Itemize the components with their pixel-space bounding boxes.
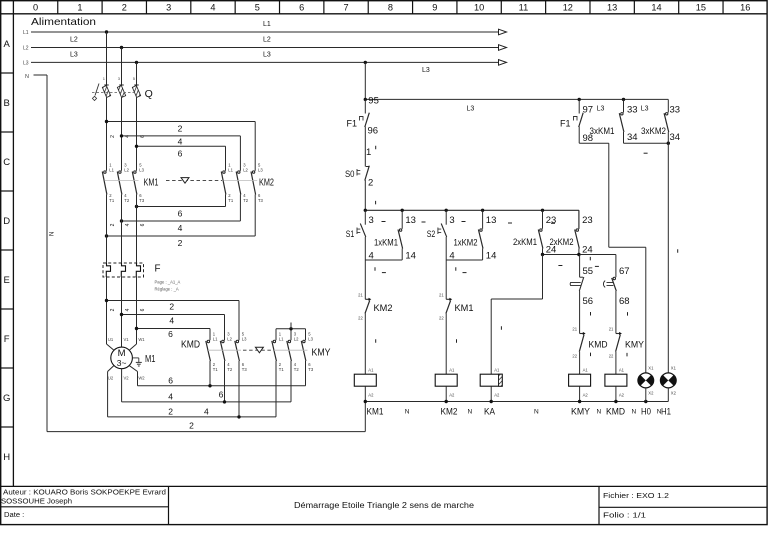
svg-text:A2: A2 (583, 393, 589, 398)
svg-text:S0: S0 (345, 169, 355, 180)
svg-text:KMD: KMD (606, 407, 625, 418)
svg-text:4: 4 (210, 2, 215, 12)
svg-text:H0: H0 (641, 407, 651, 418)
svg-text:KM2: KM2 (374, 303, 393, 314)
svg-text:L3: L3 (641, 106, 649, 113)
svg-text:T2: T2 (243, 198, 249, 203)
svg-text:8: 8 (388, 2, 393, 12)
svg-text:Page : _A1_A: Page : _A1_A (155, 280, 181, 285)
svg-text:H: H (3, 452, 10, 463)
svg-text:L1: L1 (228, 167, 233, 172)
svg-text:6: 6 (219, 390, 224, 400)
svg-text:2xKM2: 2xKM2 (550, 237, 574, 248)
svg-text:6: 6 (168, 329, 173, 339)
svg-text:21: 21 (358, 292, 363, 297)
svg-text:KMY: KMY (571, 407, 591, 418)
svg-text:Date :: Date : (4, 510, 24, 519)
svg-text:W2: W2 (138, 376, 145, 381)
svg-text:F1: F1 (560, 118, 571, 129)
svg-text:T2: T2 (124, 198, 130, 203)
svg-text:23: 23 (582, 215, 593, 226)
svg-text:13: 13 (486, 215, 497, 226)
svg-text:F1: F1 (347, 118, 358, 129)
svg-text:Alimentation: Alimentation (31, 17, 96, 28)
svg-text:L1: L1 (213, 337, 218, 342)
svg-text:L3: L3 (258, 167, 263, 172)
svg-text:L2: L2 (70, 37, 78, 44)
svg-text:56: 56 (583, 296, 594, 307)
svg-text:2: 2 (178, 124, 183, 134)
svg-text:A1: A1 (368, 368, 374, 373)
svg-text:L3: L3 (23, 60, 29, 66)
svg-text:L2: L2 (227, 337, 232, 342)
svg-text:6: 6 (178, 209, 183, 219)
svg-text:14: 14 (405, 251, 416, 262)
svg-text:X1: X1 (648, 366, 654, 371)
svg-text:N: N (25, 74, 29, 80)
svg-text:4: 4 (168, 391, 173, 401)
svg-text:3: 3 (449, 215, 454, 226)
svg-text:6: 6 (140, 223, 146, 226)
svg-text:S1: S1 (346, 229, 355, 240)
svg-text:T3: T3 (258, 198, 264, 203)
svg-text:KM1: KM1 (367, 407, 384, 418)
svg-text:6: 6 (299, 2, 304, 12)
svg-text:C: C (3, 157, 10, 168)
svg-text:11: 11 (519, 2, 529, 12)
svg-text:N: N (468, 409, 473, 416)
svg-text:34: 34 (670, 132, 681, 143)
svg-text:L3: L3 (597, 106, 605, 113)
svg-text:KM1: KM1 (144, 177, 159, 188)
svg-text:12: 12 (563, 2, 573, 12)
svg-text:L1: L1 (279, 337, 284, 342)
svg-text:4: 4 (178, 137, 183, 147)
svg-text:SOSSOUHE Joseph: SOSSOUHE Joseph (1, 497, 72, 506)
svg-text:4: 4 (125, 308, 131, 311)
svg-text:W1: W1 (138, 337, 145, 342)
svg-text:KMY: KMY (312, 347, 331, 358)
svg-text:U1: U1 (108, 337, 114, 342)
svg-text:T1: T1 (228, 198, 234, 203)
svg-text:15: 15 (696, 2, 706, 12)
svg-text:L3: L3 (422, 67, 430, 74)
svg-text:Auteur : KOUARO Boris SOKPOEKP: Auteur : KOUARO Boris SOKPOEKPE Evrard (3, 488, 166, 497)
svg-text:T1: T1 (109, 198, 115, 203)
svg-text:6: 6 (178, 148, 183, 158)
svg-text:KMD: KMD (181, 340, 200, 351)
svg-text:9: 9 (432, 2, 437, 12)
svg-text:1: 1 (77, 2, 82, 12)
svg-text:L2: L2 (23, 46, 29, 52)
svg-text:22: 22 (439, 316, 444, 321)
svg-text:G: G (3, 393, 10, 404)
svg-text:3xKM1: 3xKM1 (590, 126, 615, 137)
svg-text:D: D (3, 216, 10, 227)
svg-text:2: 2 (368, 178, 373, 189)
svg-text:1: 1 (366, 147, 371, 158)
svg-text:7: 7 (343, 2, 348, 12)
svg-text:14: 14 (486, 251, 497, 262)
svg-text:N: N (657, 409, 662, 416)
svg-text:Démarrage Etoile Triangle 2 se: Démarrage Etoile Triangle 2 sens de marc… (294, 501, 475, 510)
svg-text:L3: L3 (70, 52, 78, 59)
svg-text:A2: A2 (449, 393, 455, 398)
svg-text:L2: L2 (243, 167, 248, 172)
svg-text:H1: H1 (661, 407, 671, 418)
svg-text:Fichier : EXO 1.2: Fichier : EXO 1.2 (603, 491, 669, 500)
svg-text:L3: L3 (467, 106, 475, 113)
svg-text:2: 2 (189, 420, 194, 430)
svg-text:67: 67 (619, 266, 630, 277)
svg-text:2: 2 (178, 238, 183, 248)
svg-text:L2: L2 (124, 167, 129, 172)
svg-text:A1: A1 (449, 368, 455, 373)
svg-text:A1: A1 (619, 368, 625, 373)
svg-text:2: 2 (122, 2, 127, 12)
svg-text:N: N (405, 409, 410, 416)
svg-text:0: 0 (33, 2, 38, 12)
svg-text:2xKM1: 2xKM1 (513, 237, 537, 248)
svg-text:KMY: KMY (625, 339, 645, 350)
svg-text:21: 21 (572, 327, 577, 332)
svg-text:X1: X1 (671, 366, 677, 371)
svg-text:96: 96 (368, 126, 379, 137)
svg-text:4: 4 (125, 223, 131, 226)
svg-text:Folio : 1/1: Folio : 1/1 (603, 511, 646, 520)
svg-text:97: 97 (583, 105, 594, 116)
svg-text:1xKM1: 1xKM1 (374, 238, 398, 249)
svg-text:B: B (4, 98, 10, 109)
svg-text:KM2: KM2 (441, 407, 458, 418)
svg-text:A1: A1 (583, 368, 589, 373)
svg-text:3: 3 (369, 215, 374, 226)
svg-text:2: 2 (110, 308, 116, 311)
svg-text:13: 13 (405, 215, 416, 226)
svg-text:21: 21 (609, 327, 614, 332)
svg-text:4: 4 (178, 223, 183, 233)
svg-text:22: 22 (609, 354, 614, 359)
svg-text:1xKM2: 1xKM2 (454, 238, 478, 249)
svg-text:4: 4 (169, 315, 174, 325)
svg-text:21: 21 (439, 292, 444, 297)
svg-text:KM2: KM2 (259, 177, 274, 188)
svg-text:Q: Q (145, 88, 153, 100)
svg-text:N: N (597, 409, 602, 416)
svg-text:4: 4 (125, 135, 131, 138)
svg-text:13: 13 (607, 2, 617, 12)
svg-text:L2: L2 (263, 37, 271, 44)
svg-text:L3: L3 (242, 337, 247, 342)
svg-text:L1: L1 (23, 30, 29, 36)
svg-text:L3: L3 (308, 337, 313, 342)
svg-text:A2: A2 (494, 393, 500, 398)
svg-text:L3: L3 (139, 167, 144, 172)
svg-text:34: 34 (627, 132, 638, 143)
svg-text:3~: 3~ (117, 358, 127, 368)
svg-text:33: 33 (670, 105, 681, 116)
svg-text:T1: T1 (213, 367, 219, 372)
svg-text:F: F (155, 264, 161, 275)
svg-text:95: 95 (368, 96, 379, 107)
svg-text:10: 10 (474, 2, 484, 12)
svg-text:A2: A2 (368, 393, 374, 398)
svg-text:L2: L2 (294, 337, 299, 342)
svg-text:L1: L1 (109, 167, 114, 172)
svg-text:N: N (50, 232, 56, 236)
svg-text:N: N (632, 409, 637, 416)
svg-text:2: 2 (110, 135, 116, 138)
svg-text:4: 4 (204, 406, 209, 416)
svg-text:22: 22 (572, 354, 577, 359)
svg-text:16: 16 (740, 2, 750, 12)
svg-text:2: 2 (110, 223, 116, 226)
svg-text:F: F (4, 334, 10, 345)
svg-text:3xKM2: 3xKM2 (641, 126, 666, 137)
svg-text:T2: T2 (227, 367, 233, 372)
svg-text:Réglage : _A: Réglage : _A (155, 287, 179, 292)
svg-text:23: 23 (546, 215, 557, 226)
svg-text:33: 33 (627, 105, 638, 116)
svg-text:68: 68 (619, 296, 630, 307)
svg-text:22: 22 (358, 316, 363, 321)
svg-text:5: 5 (255, 2, 260, 12)
svg-text:E: E (4, 275, 10, 286)
svg-text:V1: V1 (123, 337, 129, 342)
svg-text:T1: T1 (279, 367, 285, 372)
svg-text:KM1: KM1 (455, 303, 474, 314)
svg-text:3: 3 (166, 2, 171, 12)
svg-text:6: 6 (140, 135, 146, 138)
svg-text:L1: L1 (263, 21, 271, 28)
svg-text:M1: M1 (145, 354, 156, 365)
svg-text:KA: KA (484, 407, 496, 418)
svg-text:T3: T3 (139, 198, 145, 203)
svg-text:X2: X2 (648, 391, 654, 396)
svg-text:V2: V2 (123, 376, 129, 381)
svg-text:6: 6 (140, 308, 146, 311)
svg-text:A1: A1 (494, 368, 500, 373)
svg-text:6: 6 (168, 375, 173, 385)
svg-text:T3: T3 (242, 367, 248, 372)
svg-text:T3: T3 (308, 367, 314, 372)
svg-text:A2: A2 (619, 393, 625, 398)
svg-text:T2: T2 (294, 367, 300, 372)
svg-text:A: A (4, 39, 11, 50)
svg-text:U2: U2 (108, 376, 114, 381)
svg-text:S2: S2 (427, 229, 436, 240)
svg-text:2: 2 (169, 302, 174, 312)
svg-text:X2: X2 (671, 391, 677, 396)
svg-text:N: N (534, 409, 539, 416)
svg-text:55: 55 (583, 266, 594, 277)
svg-text:14: 14 (651, 2, 661, 12)
svg-text:KMD: KMD (589, 339, 608, 350)
svg-text:L3: L3 (263, 52, 271, 59)
svg-text:2: 2 (168, 406, 173, 416)
